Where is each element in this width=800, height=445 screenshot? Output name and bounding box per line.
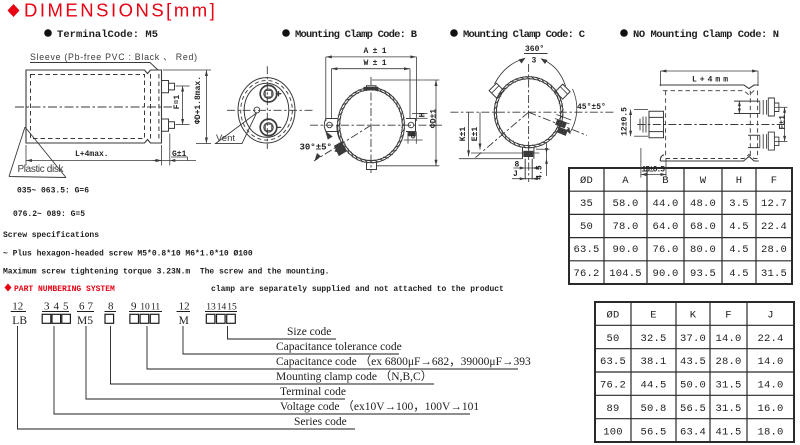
A extension line right xyxy=(415,57,417,121)
svg-text:93.5: 93.5 xyxy=(690,268,716,280)
svg-text:ØD: ØD xyxy=(606,310,619,322)
svg-text:LB: LB xyxy=(12,315,27,327)
fraction bar xyxy=(524,53,548,55)
svg-text:12±0.5: 12±0.5 xyxy=(621,107,630,136)
nut under right lug xyxy=(408,132,416,137)
L dim extension right xyxy=(757,71,759,86)
K dimension line xyxy=(468,112,470,156)
svg-text:44.5: 44.5 xyxy=(640,380,666,392)
center line horizontal xyxy=(310,124,443,126)
svg-text:Mounting Clamp Code: C: Mounting Clamp Code: C xyxy=(463,29,586,41)
F+-1 extension lines xyxy=(775,106,787,108)
8 dimension line xyxy=(513,167,540,169)
part numbering digits row xyxy=(12,301,237,313)
body top line with notch xyxy=(660,85,759,89)
svg-text:63.4: 63.4 xyxy=(680,427,706,439)
W+-1 dimension line xyxy=(331,68,410,70)
lower-right clamp bolt bracket xyxy=(555,115,571,125)
svg-text:7: 7 xyxy=(88,301,94,313)
phiD+-1 dimension line xyxy=(435,80,437,166)
svg-text:H: H xyxy=(419,112,428,117)
svg-text:F: F xyxy=(725,310,732,322)
svg-text:K±1: K±1 xyxy=(459,127,468,142)
front view outer ellipse xyxy=(238,78,295,143)
F=1 extension lines xyxy=(176,85,190,87)
H extension lines xyxy=(412,112,428,114)
heading bullet mounting clamp B xyxy=(282,29,290,37)
title diamond xyxy=(8,4,20,17)
svg-text:50.8: 50.8 xyxy=(640,403,666,415)
W extension line right xyxy=(409,69,411,119)
svg-text:78.0: 78.0 xyxy=(612,221,638,233)
svg-text:4.5: 4.5 xyxy=(729,244,749,256)
svg-text:15±0.5: 15±0.5 xyxy=(642,166,666,175)
svg-text:DIMENSIONS[mm]: DIMENSIONS[mm] xyxy=(24,0,217,21)
12+-0.5 dimension xyxy=(630,110,632,137)
svg-text:6: 6 xyxy=(79,301,85,313)
svg-text:W±1: W±1 xyxy=(364,59,387,68)
15+-0.5 dimension overlay xyxy=(641,148,666,178)
center line fig1 xyxy=(15,106,172,108)
clamp band outer ellipse C xyxy=(494,77,563,148)
svg-text:31.5: 31.5 xyxy=(715,380,741,392)
svg-text:E: E xyxy=(650,310,657,322)
J dimension line xyxy=(512,178,540,180)
body bottom line with notch xyxy=(660,155,758,161)
negative terminal xyxy=(260,119,277,136)
phiD dimension extension lines xyxy=(163,69,211,71)
F=1 dimension line xyxy=(182,86,184,125)
svg-text:J: J xyxy=(513,170,518,179)
svg-text:76.2: 76.2 xyxy=(600,380,626,392)
G dimension line xyxy=(153,160,196,162)
radial to lower-left xyxy=(475,112,528,158)
svg-text:H: H xyxy=(736,175,743,187)
svg-text:14.0: 14.0 xyxy=(757,380,783,392)
center line vertical C xyxy=(528,64,530,158)
terminal stud lower xyxy=(162,119,175,131)
svg-text:14.0: 14.0 xyxy=(715,333,741,345)
vent hole xyxy=(254,107,260,113)
heading bullet terminal code xyxy=(44,29,52,37)
svg-text:ΦD±1: ΦD±1 xyxy=(430,109,439,128)
svg-text:63.5: 63.5 xyxy=(573,244,599,256)
svg-text:ØD: ØD xyxy=(580,175,593,187)
dashed bottom line with notch xyxy=(666,155,758,159)
foot plate dark band xyxy=(523,151,533,157)
svg-text:35: 35 xyxy=(580,198,593,210)
svg-text:M: M xyxy=(179,315,189,327)
table 1 xyxy=(569,168,792,284)
svg-text:NO Mounting Clamp Code: N: NO Mounting Clamp Code: N xyxy=(633,29,779,41)
vent leader triangle xyxy=(216,113,257,144)
svg-text:035~ 063.5: G=6: 035~ 063.5: G=6 xyxy=(17,187,89,196)
svg-text:63.5: 63.5 xyxy=(600,356,626,368)
svg-text:Mounting clamp code （N,B,C）: Mounting clamp code （N,B,C） xyxy=(276,370,432,383)
svg-text:Voltage code （ex10V→100，100V→1: Voltage code （ex10V→100，100V→101 xyxy=(280,400,479,413)
svg-text:F=1: F=1 xyxy=(173,95,182,110)
svg-text:12: 12 xyxy=(179,301,190,313)
plastic disk leader xyxy=(9,127,66,178)
svg-text:50: 50 xyxy=(606,333,619,345)
svg-text:L+4max.: L+4max. xyxy=(75,150,109,159)
inner dashed sleeve rect xyxy=(31,75,145,139)
15+-0.5 right extension xyxy=(665,159,667,178)
upper screw terminal tube xyxy=(734,101,760,113)
capacitor body outline xyxy=(26,70,162,143)
svg-text:4: 4 xyxy=(54,301,60,313)
leader to right tab xyxy=(542,59,566,86)
leader to left tab xyxy=(495,59,525,85)
svg-text:12: 12 xyxy=(12,301,23,313)
K reference line xyxy=(459,158,523,160)
svg-text:43.5: 43.5 xyxy=(680,356,706,368)
L+4mm dimension line xyxy=(661,70,759,72)
svg-text:41.5: 41.5 xyxy=(715,427,741,439)
svg-text:89: 89 xyxy=(606,403,619,415)
foot stem left line xyxy=(524,159,526,180)
svg-text:Size code: Size code xyxy=(287,326,331,338)
svg-text:~ Plus hexagon-headed screw M5: ~ Plus hexagon-headed screw M5*0.8*10 M6… xyxy=(3,250,253,259)
svg-text:Vent: Vent xyxy=(216,133,235,144)
mounting bolt threads xyxy=(640,117,646,133)
svg-text:58.0: 58.0 xyxy=(612,198,638,210)
svg-text:16.0: 16.0 xyxy=(757,403,783,415)
front view dashed ellipse xyxy=(241,81,293,141)
width 6 dimension ticks xyxy=(407,132,409,144)
left clamp lug xyxy=(324,119,337,132)
svg-text:50.0: 50.0 xyxy=(680,380,706,392)
svg-text:76.2: 76.2 xyxy=(573,268,599,280)
svg-text:F±1: F±1 xyxy=(779,115,788,130)
svg-text:PART NUMBERING SYSTEM: PART NUMBERING SYSTEM xyxy=(14,285,115,294)
G+-1 underline with drop xyxy=(171,157,188,161)
svg-text:12.7: 12.7 xyxy=(761,198,787,210)
dashed fold line right xyxy=(749,91,751,159)
svg-text:37.0: 37.0 xyxy=(680,333,706,345)
heading bullet mounting clamp C xyxy=(450,29,458,37)
4.5 extension line xyxy=(536,148,550,150)
code boxes xyxy=(42,314,235,323)
svg-text:3: 3 xyxy=(44,301,50,313)
center line N xyxy=(637,124,784,126)
svg-text:80.0: 80.0 xyxy=(690,244,716,256)
45 deg arc xyxy=(570,89,577,133)
W extension line left xyxy=(330,69,332,119)
svg-text:TerminalCode: M5: TerminalCode: M5 xyxy=(57,29,158,41)
E reference line xyxy=(471,152,539,154)
svg-text:3: 3 xyxy=(532,57,537,66)
svg-text:90.0: 90.0 xyxy=(652,268,678,280)
svg-text:50: 50 xyxy=(580,221,593,233)
dashed top line with notch xyxy=(663,91,758,95)
part numbering codes row xyxy=(12,315,189,327)
center line vertical xyxy=(370,77,372,173)
15+-0.5 dimension line xyxy=(641,174,666,176)
lower-right bolt nut lower xyxy=(557,127,568,136)
svg-text:64.0: 64.0 xyxy=(652,221,678,233)
dashed right edge xyxy=(757,91,759,159)
svg-text:4.5: 4.5 xyxy=(536,165,545,180)
svg-text:K: K xyxy=(690,310,697,322)
dashed sleeve fold line 2 xyxy=(158,74,160,139)
band hatch ticks xyxy=(337,87,405,163)
svg-text:Terminal code: Terminal code xyxy=(280,386,346,398)
dashed left edge xyxy=(665,91,667,159)
svg-text:32.5: 32.5 xyxy=(640,333,666,345)
E dimension line xyxy=(479,112,481,149)
top tab xyxy=(367,86,377,91)
svg-text:E±1: E±1 xyxy=(471,127,480,142)
svg-text:44.0: 44.0 xyxy=(652,198,678,210)
clamp screw at 210 deg xyxy=(335,142,347,156)
svg-text:076.2~ 089: G=5: 076.2~ 089: G=5 xyxy=(13,210,85,219)
part numbering diamond xyxy=(5,284,12,292)
svg-text:45°±5°: 45°±5° xyxy=(577,103,606,112)
svg-text:A±1: A±1 xyxy=(364,47,387,56)
svg-text:76.0: 76.0 xyxy=(652,244,678,256)
heading bullet no mounting clamp N xyxy=(620,29,628,37)
top-right clamp tab xyxy=(555,84,570,99)
svg-text:3.5: 3.5 xyxy=(729,198,749,210)
clamp band inner ellipse xyxy=(340,90,403,161)
svg-text:14.0: 14.0 xyxy=(757,356,783,368)
svg-text:4.5: 4.5 xyxy=(729,221,749,233)
svg-text:31.5: 31.5 xyxy=(761,268,787,280)
table 2 xyxy=(595,302,794,442)
svg-text:G±1: G±1 xyxy=(172,150,187,159)
lower terminal plates xyxy=(760,132,779,150)
svg-text:56.5: 56.5 xyxy=(640,427,666,439)
terminal stud upper xyxy=(162,81,175,93)
top-left clamp tab xyxy=(489,83,504,98)
svg-text:18.0: 18.0 xyxy=(757,427,783,439)
clamp band outer ellipse xyxy=(338,88,405,163)
bottom tab xyxy=(367,162,377,170)
svg-text:6: 6 xyxy=(411,133,416,142)
svg-text:4.5: 4.5 xyxy=(729,268,749,280)
svg-text:360°: 360° xyxy=(525,45,544,54)
front view center line horizontal xyxy=(227,109,313,111)
svg-text:F: F xyxy=(771,175,778,187)
svg-text:Mounting Clamp Code: B: Mounting Clamp Code: B xyxy=(295,29,418,41)
radial to lower-right bolt xyxy=(529,112,587,135)
svg-text:38.1: 38.1 xyxy=(640,356,666,368)
svg-text:56.5: 56.5 xyxy=(680,403,706,415)
L+4max extension lines xyxy=(25,145,27,166)
svg-text:30°±5°: 30°±5° xyxy=(300,143,332,153)
svg-text:Screw specifications: Screw specifications xyxy=(3,231,99,240)
svg-text:48.0: 48.0 xyxy=(690,198,716,210)
svg-text:L+4mm: L+4mm xyxy=(692,76,728,85)
A+-1 dimension line xyxy=(326,56,417,58)
A extension line left xyxy=(325,57,327,121)
4.5 dimension line xyxy=(546,144,548,177)
svg-text:28.0: 28.0 xyxy=(761,244,787,256)
foot center dash line xyxy=(528,147,530,182)
svg-text:104.5: 104.5 xyxy=(609,268,642,280)
sleeve leader line xyxy=(30,63,158,71)
svg-text:Plastic disk: Plastic disk xyxy=(18,164,65,175)
lower screw terminal tube xyxy=(748,135,760,147)
30 degree arc with arrow xyxy=(337,126,340,140)
clamp band inner ellipse C xyxy=(496,79,560,146)
front view center line vertical xyxy=(266,66,268,149)
bolt under left lug xyxy=(326,132,332,139)
connector labels xyxy=(276,326,531,428)
minus sign xyxy=(276,126,281,128)
svg-text:22.4: 22.4 xyxy=(757,333,783,345)
upper terminal height dim xyxy=(738,101,740,113)
svg-text:31.5: 31.5 xyxy=(715,403,741,415)
band hatch ticks C xyxy=(494,76,564,148)
L+4max dimension line xyxy=(26,160,162,162)
svg-text:Capacitance tolerance code: Capacitance tolerance code xyxy=(276,341,402,353)
svg-text:90.0: 90.0 xyxy=(612,244,638,256)
phiD dimension line xyxy=(205,70,207,144)
dashed sleeve fold line 1 xyxy=(150,74,152,139)
left lug bolt hole xyxy=(327,122,333,128)
svg-text:B: B xyxy=(662,175,669,187)
connector lines xyxy=(18,326,519,429)
F+-1 dimension line xyxy=(784,107,786,141)
svg-text:Sleeve (Pb-free PVC : Black 、: Sleeve (Pb-free PVC : Black 、 Red) xyxy=(30,52,197,62)
center line horizontal C xyxy=(450,111,614,113)
svg-text:A: A xyxy=(622,175,629,187)
svg-text:Series code: Series code xyxy=(294,416,347,428)
bottom foot bracket xyxy=(523,147,534,159)
svg-text:J: J xyxy=(767,310,774,322)
svg-text:8: 8 xyxy=(108,301,114,313)
upper terminal plates xyxy=(760,98,779,116)
front view inner ellipse xyxy=(244,83,289,137)
svg-text:clamp are separately supplied: clamp are separately supplied and not at… xyxy=(211,285,504,294)
right lug bolt hole xyxy=(408,122,414,128)
30 degree dash-dot radial xyxy=(314,125,371,161)
digit underlines xyxy=(11,311,237,313)
plus sign xyxy=(276,91,282,96)
svg-text:9: 9 xyxy=(131,301,137,313)
svg-text:100: 100 xyxy=(603,427,623,439)
svg-text:22.4: 22.4 xyxy=(761,221,787,233)
mounting bolt hex head xyxy=(649,111,664,137)
svg-text:ΦD+1.8max.: ΦD+1.8max. xyxy=(194,76,203,124)
15+-0.5 left extension xyxy=(640,148,642,178)
positive terminal xyxy=(260,85,277,102)
phiD+-1 extension top xyxy=(372,79,439,81)
svg-text:Capacitance code （ex 6800μF→68: Capacitance code （ex 6800μF→682，39000μF→… xyxy=(276,355,531,368)
foot stem right line xyxy=(531,159,533,180)
right clamp lug xyxy=(406,119,416,132)
svg-text:M5: M5 xyxy=(77,315,93,327)
svg-text:5: 5 xyxy=(63,301,69,313)
lower-right bolt nut upper xyxy=(556,120,567,129)
svg-text:W: W xyxy=(700,175,707,187)
phiD+-1 extension bottom xyxy=(377,165,439,167)
svg-text:28.0: 28.0 xyxy=(715,356,741,368)
svg-text:Maximum screw tightening torqu: Maximum screw tightening torque 3.23N.m … xyxy=(3,268,329,277)
L dim extension left xyxy=(660,71,662,86)
svg-text:68.0: 68.0 xyxy=(690,221,716,233)
